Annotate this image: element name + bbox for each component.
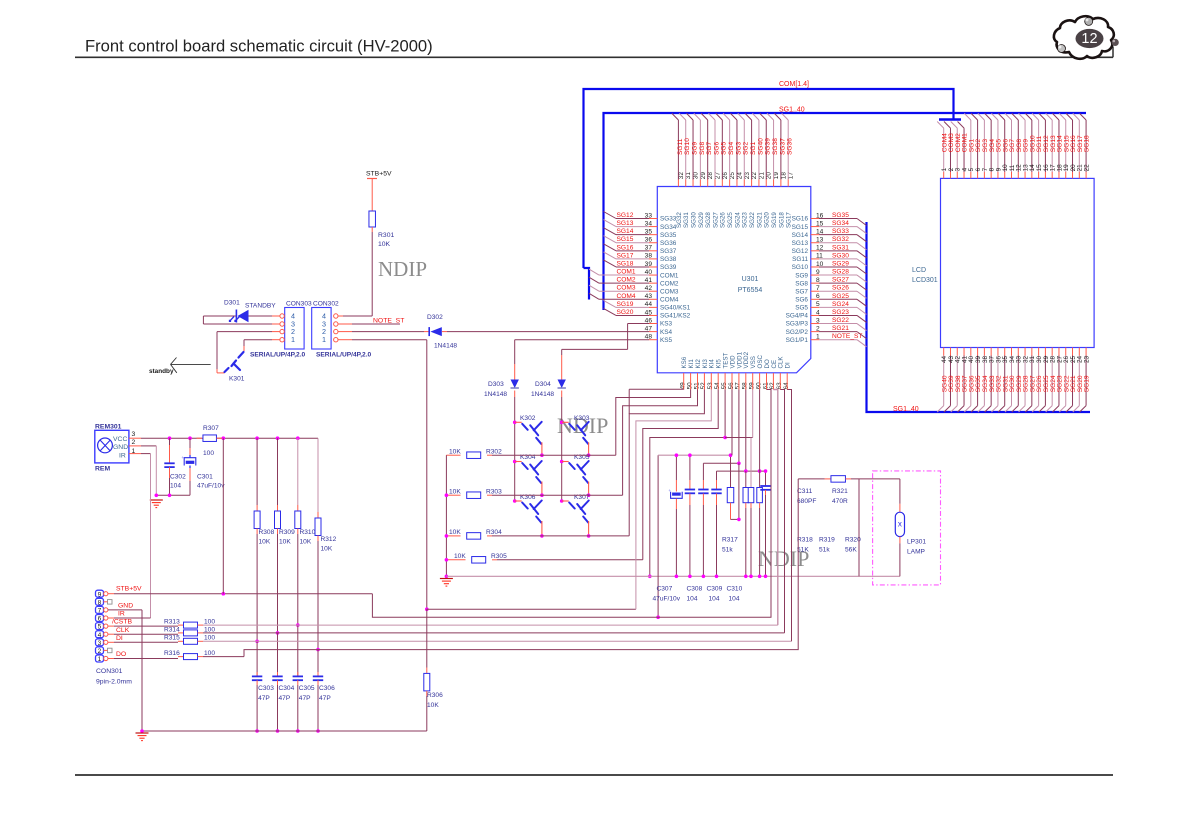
wire STB+5V drop and row 617 <box>372 390 771 618</box>
ground symbol key matrix <box>440 578 453 580</box>
svg-text:SG21: SG21 <box>832 325 849 332</box>
svg-text:REM301: REM301 <box>95 424 122 431</box>
svg-text:GND: GND <box>118 603 133 610</box>
svg-text:23: 23 <box>744 172 751 180</box>
svg-text:/CSTB: /CSTB <box>112 619 132 626</box>
svg-text:R318: R318 <box>797 537 813 544</box>
ground bus left of key matrix <box>445 455 447 576</box>
ground row middle horizontal <box>446 575 900 577</box>
svg-text:SG40/KS1: SG40/KS1 <box>660 305 691 312</box>
wires pull-up columns continue to filter caps <box>256 641 258 676</box>
svg-text:LCD301: LCD301 <box>912 277 938 284</box>
svg-text:1: 1 <box>322 335 326 344</box>
svg-text:KS3: KS3 <box>660 321 673 328</box>
svg-text:C308: C308 <box>687 586 703 593</box>
switch K307 <box>562 500 569 502</box>
wire CLK pin63 riser <box>780 390 784 633</box>
svg-text:COM1: COM1 <box>660 272 679 279</box>
svg-text:SG13: SG13 <box>792 240 809 247</box>
wire CON303 pin4 row to LED <box>272 315 280 317</box>
svg-text:470R: 470R <box>832 498 848 505</box>
svg-text:R310: R310 <box>300 529 316 536</box>
svg-text:51K: 51K <box>797 547 809 554</box>
svg-text:SG6: SG6 <box>713 141 720 155</box>
svg-text:SG25: SG25 <box>727 212 734 228</box>
svg-text:IR: IR <box>118 611 125 618</box>
svg-text:47P: 47P <box>258 695 270 702</box>
svg-text:C303: C303 <box>258 685 274 692</box>
svg-text:10K: 10K <box>279 539 291 546</box>
svg-text:10K: 10K <box>449 448 461 455</box>
LCD301 bottom pins stubs diagonals numbers and red labels <box>943 348 945 356</box>
svg-text:SG1..40: SG1..40 <box>779 107 805 114</box>
wire KI5 from U301 pin54 to R305 row <box>643 390 718 560</box>
svg-text:3: 3 <box>132 431 136 438</box>
switch K302 <box>515 421 522 423</box>
svg-text:SG31: SG31 <box>832 244 849 251</box>
svg-text:SG28: SG28 <box>705 212 712 228</box>
svg-text:SG16: SG16 <box>617 244 634 251</box>
svg-text:COM2: COM2 <box>617 277 636 284</box>
svg-text:8: 8 <box>98 599 102 606</box>
svg-text:SG4: SG4 <box>728 141 735 155</box>
svg-text:1N4148: 1N4148 <box>531 391 554 398</box>
rail TEST extends to VSS pin59 <box>725 437 753 439</box>
svg-text:47P: 47P <box>299 695 311 702</box>
page number cloud badge 12 <box>1054 16 1119 59</box>
bus SG right vertical to bottom <box>867 222 1091 412</box>
svg-text:SG21: SG21 <box>756 212 763 228</box>
svg-text:C309: C309 <box>707 586 723 593</box>
svg-text:SG20: SG20 <box>617 309 634 316</box>
svg-text:C311: C311 <box>797 488 813 495</box>
svg-text:6: 6 <box>98 616 102 623</box>
svg-text:25: 25 <box>729 172 736 180</box>
svg-text:56K: 56K <box>845 547 857 554</box>
svg-text:SG41/KS2: SG41/KS2 <box>660 313 691 320</box>
U301 right pin stubs with diagonals to SG bus <box>811 339 819 341</box>
header rule line <box>75 56 1113 58</box>
svg-text:SG3: SG3 <box>735 141 742 155</box>
svg-text:SG10: SG10 <box>792 264 809 271</box>
svg-text:R307: R307 <box>203 425 219 432</box>
svg-text:SG32: SG32 <box>676 212 683 228</box>
wire DO row jog and run to lamp riser <box>244 479 798 657</box>
wire CON303 pin1 to K301 top <box>272 339 280 341</box>
junction pull-ups to key rows <box>255 640 259 644</box>
svg-text:SG36: SG36 <box>787 138 794 155</box>
svg-text:STB+5V: STB+5V <box>366 171 392 178</box>
switch K303 <box>562 421 569 423</box>
resistor R301 <box>369 211 376 227</box>
wire KI2 from U301 pin51 to R303 row <box>623 390 698 496</box>
svg-text:SG32: SG32 <box>832 236 849 243</box>
svg-text:DO: DO <box>116 651 126 658</box>
svg-text:10K: 10K <box>300 539 312 546</box>
svg-text:32: 32 <box>678 172 685 180</box>
wire CON302 pin3 NOTE_ST stub <box>338 323 352 325</box>
svg-text:SG11: SG11 <box>677 138 684 155</box>
svg-text:K303: K303 <box>574 415 590 422</box>
svg-text:10K: 10K <box>378 241 391 248</box>
svg-text:SG35: SG35 <box>660 232 677 239</box>
wire U301 KS3 row down to D304 <box>649 323 657 325</box>
svg-text:SG26: SG26 <box>832 285 849 292</box>
svg-text:CON301: CON301 <box>96 668 123 675</box>
U301 top pin stubs and diagonals to SG bus <box>677 180 679 187</box>
svg-text:LCD: LCD <box>912 267 926 274</box>
svg-text:SERIAL/UP/4P,2.0: SERIAL/UP/4P,2.0 <box>316 352 372 359</box>
svg-text:1: 1 <box>98 656 102 663</box>
bus SG1..40 top horizontal <box>604 113 1087 310</box>
svg-text:23: 23 <box>1083 355 1090 363</box>
svg-text:KS4: KS4 <box>660 329 673 336</box>
svg-text:SG23: SG23 <box>742 212 749 228</box>
svg-text:SG27: SG27 <box>832 277 849 284</box>
svg-text:NDIP: NDIP <box>378 257 427 281</box>
wire VDD pin56 down to rail <box>731 390 733 456</box>
svg-text:SG5: SG5 <box>795 305 808 312</box>
svg-text:SG2: SG2 <box>743 141 750 155</box>
svg-text:SG18: SG18 <box>617 260 634 267</box>
U301 left pin stubs SG12-SG18 with diagonals <box>649 218 657 220</box>
svg-text:R321: R321 <box>832 488 848 495</box>
svg-text:COM1: COM1 <box>617 269 636 276</box>
svg-text:SG6: SG6 <box>795 297 808 304</box>
svg-text:D302: D302 <box>427 314 443 321</box>
svg-text:7: 7 <box>98 608 102 615</box>
svg-text:26: 26 <box>722 172 729 180</box>
svg-text:SG18: SG18 <box>1084 135 1091 152</box>
svg-text:GND: GND <box>113 444 128 451</box>
svg-text:10K: 10K <box>259 539 271 546</box>
CON302 pin circles and numbers <box>334 314 338 318</box>
svg-text:SERIAL/UP/4P,2.0: SERIAL/UP/4P,2.0 <box>250 352 306 359</box>
svg-text:SG26: SG26 <box>720 212 727 228</box>
svg-text:10K: 10K <box>321 546 333 553</box>
dashed enclosure for LP301 <box>873 471 941 585</box>
svg-text:D303: D303 <box>488 381 504 388</box>
svg-text:standby: standby <box>149 368 174 375</box>
svg-text:64: 64 <box>783 382 790 390</box>
svg-text:SG22: SG22 <box>832 317 849 324</box>
svg-text:51k: 51k <box>819 547 830 554</box>
svg-text:COM3: COM3 <box>617 285 636 292</box>
svg-text:D304: D304 <box>535 381 551 388</box>
wire CON303 pin3 row loop bottom <box>272 323 280 325</box>
wire U301 KS5 row down through D303 <box>649 339 657 341</box>
svg-text:SG3/P3: SG3/P3 <box>786 321 809 328</box>
svg-text:SG24: SG24 <box>734 212 741 228</box>
svg-text:27: 27 <box>715 172 722 180</box>
wire lamp branch vertical <box>858 479 860 576</box>
svg-text:18: 18 <box>780 172 787 180</box>
svg-text:SG14: SG14 <box>617 228 634 235</box>
svg-text:DI: DI <box>116 635 123 642</box>
svg-text:COM4: COM4 <box>617 293 636 300</box>
junctions D303 column to switch tops <box>513 421 517 425</box>
svg-text:1N4148: 1N4148 <box>434 343 457 350</box>
svg-text:K301: K301 <box>229 376 245 383</box>
svg-text:SG15: SG15 <box>792 224 809 231</box>
svg-text:SG30: SG30 <box>690 212 697 228</box>
svg-text:COM4: COM4 <box>660 297 679 304</box>
svg-text:C302: C302 <box>170 474 186 481</box>
svg-text:SG35: SG35 <box>832 212 849 219</box>
REM301 pin leads <box>129 437 141 439</box>
svg-text:SG7: SG7 <box>706 141 713 155</box>
svg-text:R313: R313 <box>164 618 180 625</box>
wire R301 bottom to CON302 pin4 <box>371 227 373 232</box>
svg-text:Front control board schematic: Front control board schematic circuit (H… <box>85 37 433 56</box>
svg-text:51k: 51k <box>722 547 733 554</box>
svg-text:SG28: SG28 <box>832 269 849 276</box>
svg-text:SG13: SG13 <box>617 220 634 227</box>
svg-text:100: 100 <box>204 650 215 657</box>
wire CON302 pin2 row to U301 KS4 <box>338 331 352 333</box>
svg-text:SG8: SG8 <box>795 280 808 287</box>
svg-text:SG39: SG39 <box>660 264 677 271</box>
svg-text:100: 100 <box>204 635 215 642</box>
svg-text:1N4148: 1N4148 <box>484 391 507 398</box>
svg-text:COM2: COM2 <box>660 280 679 287</box>
svg-text:C306: C306 <box>319 685 335 692</box>
bottom border line <box>75 774 1113 776</box>
svg-text:SG37: SG37 <box>779 138 786 155</box>
svg-text:104: 104 <box>709 596 720 603</box>
svg-text:47P: 47P <box>319 695 331 702</box>
svg-text:21: 21 <box>758 172 765 180</box>
U301 left SG19 SG20 pin stubs <box>649 306 657 308</box>
svg-text:104: 104 <box>170 483 181 490</box>
svg-text:SG20: SG20 <box>764 212 771 228</box>
svg-text:9pin-2.0mm: 9pin-2.0mm <box>96 679 132 686</box>
connector CON302 body <box>312 308 331 350</box>
svg-text:28: 28 <box>707 172 714 180</box>
bus COM junction bar at LCD <box>939 118 961 121</box>
svg-text:LP301: LP301 <box>907 539 926 546</box>
wire D301 loop left vertical <box>202 316 204 324</box>
svg-text:SG12: SG12 <box>792 248 809 255</box>
svg-text:STB+5V: STB+5V <box>116 586 142 593</box>
svg-text:KS5: KS5 <box>660 337 673 344</box>
svg-text:R305: R305 <box>491 553 507 560</box>
wire REM IR down to CON301 IR row <box>141 453 151 455</box>
wire GND pin7 to bottom ground bus <box>108 609 142 611</box>
svg-text:NOTE_ST: NOTE_ST <box>373 318 404 325</box>
connector CON303 body <box>285 308 304 350</box>
wire TEST pin55 to ground row <box>650 390 725 577</box>
svg-text:REM: REM <box>95 466 110 473</box>
bus COM left vertical jog <box>584 268 590 300</box>
wire REM GND to ground <box>141 445 156 447</box>
svg-text:R302: R302 <box>486 448 502 455</box>
svg-text:10K: 10K <box>449 488 461 495</box>
svg-text:K302: K302 <box>520 415 536 422</box>
svg-text:LAMP: LAMP <box>907 549 926 556</box>
svg-text:10K: 10K <box>454 553 466 560</box>
wire CON303 pin2 to K301 bottom <box>272 331 280 333</box>
svg-text:SG12: SG12 <box>617 212 634 219</box>
svg-text:10K: 10K <box>427 702 439 709</box>
svg-text:SG16: SG16 <box>792 216 809 223</box>
standby annotation arrow <box>171 358 211 373</box>
switch K306 <box>515 500 522 502</box>
junction CON302 pin1 net and R306 row <box>425 607 429 611</box>
svg-text:20: 20 <box>766 172 773 180</box>
svg-text:R312: R312 <box>321 536 337 543</box>
svg-text:SG2/P2: SG2/P2 <box>786 329 809 336</box>
svg-text:30: 30 <box>693 172 700 180</box>
svg-text:SG31: SG31 <box>683 212 690 228</box>
wire row 609 to pin53 riser <box>427 608 636 610</box>
U301 bottom pin red lead stubs <box>683 373 685 390</box>
svg-text:12: 12 <box>1081 31 1097 47</box>
wire KI1 from U301 pin50 to R302 row <box>616 390 691 456</box>
svg-text:CON303: CON303 <box>286 301 312 308</box>
wire VSS pin59 down to rail <box>752 390 754 438</box>
svg-text:SG8: SG8 <box>699 141 706 155</box>
svg-text:R319: R319 <box>819 537 835 544</box>
LCD panel LCD301 body <box>941 178 1095 347</box>
svg-text:SG19: SG19 <box>771 212 778 228</box>
junctions D304 column to switch tops <box>560 421 564 425</box>
wire IR pin6 lead <box>108 617 114 619</box>
wire R317 bottom stub to VDD1 pin57 <box>731 518 739 520</box>
wire KS6 from U301 pin49 <box>629 388 684 390</box>
svg-text:SG24: SG24 <box>832 301 849 308</box>
svg-text:SG30: SG30 <box>832 252 849 259</box>
svg-text:SG36: SG36 <box>660 240 677 247</box>
svg-text:2: 2 <box>132 439 136 446</box>
wire CE pin62 riser <box>773 390 777 626</box>
svg-text:47uF/10v: 47uF/10v <box>653 596 681 603</box>
svg-text:C307: C307 <box>657 586 673 593</box>
svg-text:SG29: SG29 <box>698 212 705 228</box>
svg-text:SG33: SG33 <box>660 216 677 223</box>
svg-text:104: 104 <box>687 596 698 603</box>
svg-text:SG19: SG19 <box>1084 375 1091 392</box>
svg-text:VCC: VCC <box>113 436 127 443</box>
svg-text:SG19: SG19 <box>617 301 634 308</box>
svg-text:NOTE_ST: NOTE_ST <box>832 333 862 340</box>
svg-text:SG17: SG17 <box>786 212 793 228</box>
switch K305 <box>562 461 569 463</box>
svg-text:19: 19 <box>773 172 780 180</box>
svg-text:SG15: SG15 <box>617 236 634 243</box>
svg-text:COM[1.4]: COM[1.4] <box>779 81 809 88</box>
ground symbol REM <box>150 499 163 501</box>
svg-text:SG1..40: SG1..40 <box>893 406 919 413</box>
svg-text:SG9: SG9 <box>691 141 698 155</box>
svg-text:R306: R306 <box>427 692 443 699</box>
svg-text:9: 9 <box>98 591 102 598</box>
wire REM VCC row <box>141 437 318 439</box>
svg-text:R315: R315 <box>164 635 180 642</box>
svg-text:CLK: CLK <box>116 627 130 634</box>
wire R307 junction down to STB row <box>222 438 224 594</box>
svg-text:C301: C301 <box>197 474 213 481</box>
wire KI3 from U301 pin52 to R304 row <box>629 390 704 536</box>
LCD301 top pins stubs diagonals numbers and red labels <box>943 172 945 178</box>
svg-text:R304: R304 <box>486 529 502 536</box>
wire STB+5V row from CON301 pin9 <box>108 593 114 595</box>
svg-text:SG37: SG37 <box>660 248 677 255</box>
svg-text:R308: R308 <box>259 529 275 536</box>
svg-text:SG34: SG34 <box>832 220 849 227</box>
svg-text:SG40: SG40 <box>757 138 764 155</box>
svg-text:R309: R309 <box>279 529 295 536</box>
wire R301 top lead <box>371 179 373 212</box>
svg-text:2: 2 <box>98 648 102 655</box>
svg-text:10K: 10K <box>449 529 461 536</box>
svg-text:104: 104 <box>729 596 740 603</box>
svg-text:SG5: SG5 <box>721 141 728 155</box>
svg-text:24: 24 <box>736 172 743 180</box>
svg-text:22: 22 <box>1083 164 1090 172</box>
svg-text:x: x <box>898 520 902 529</box>
svg-text:29: 29 <box>700 172 707 180</box>
svg-text:SG14: SG14 <box>792 232 809 239</box>
svg-text:SG9: SG9 <box>795 272 808 279</box>
wire DI pin64 riser <box>787 390 791 642</box>
svg-text:22: 22 <box>751 172 758 180</box>
wire KI4 from U301 pin53 down to node row 609 <box>636 390 711 610</box>
svg-text:R314: R314 <box>164 627 180 634</box>
svg-text:C305: C305 <box>299 685 315 692</box>
svg-text:SG38: SG38 <box>660 256 677 263</box>
svg-text:U301: U301 <box>742 276 759 283</box>
svg-text:COM3: COM3 <box>660 288 679 295</box>
switch K304 <box>515 461 522 463</box>
svg-text:680PF: 680PF <box>797 498 816 505</box>
svg-text:SG33: SG33 <box>832 228 849 235</box>
wire OSC pin60 down to rail 471 <box>759 390 761 472</box>
svg-text:SG25: SG25 <box>832 293 849 300</box>
CON303 pin circles and numbers <box>280 314 284 318</box>
svg-text:SG11: SG11 <box>792 256 808 263</box>
svg-text:SG29: SG29 <box>832 260 849 267</box>
svg-text:SG34: SG34 <box>660 224 677 231</box>
svg-text:SG23: SG23 <box>832 309 849 316</box>
svg-text:SG10: SG10 <box>684 138 691 155</box>
svg-text:100: 100 <box>203 450 214 457</box>
svg-text:D301: D301 <box>224 300 240 307</box>
svg-text:SG7: SG7 <box>795 288 808 295</box>
svg-text:1: 1 <box>291 335 295 344</box>
svg-text:3: 3 <box>98 640 102 647</box>
svg-text:R303: R303 <box>486 488 502 495</box>
svg-text:5: 5 <box>98 624 102 631</box>
rail VDD row 455 to caps <box>657 455 659 617</box>
svg-text:SG17: SG17 <box>617 252 634 259</box>
ground symbol bottom left <box>136 732 149 734</box>
svg-text:SG4/P4: SG4/P4 <box>786 313 809 320</box>
svg-text:SG27: SG27 <box>712 212 719 228</box>
svg-text:C310: C310 <box>727 586 743 593</box>
svg-text:STANDBY: STANDBY <box>245 303 276 310</box>
svg-text:+: + <box>181 455 184 460</box>
svg-text:4: 4 <box>98 632 102 639</box>
wire CON302 pin1 down to STB node row <box>338 339 352 341</box>
svg-text:SG1/P1: SG1/P1 <box>786 337 809 344</box>
svg-text:SG39: SG39 <box>765 138 772 155</box>
svg-text:SG22: SG22 <box>749 212 756 228</box>
svg-text:100: 100 <box>204 618 215 625</box>
ground bus bottom left <box>142 730 427 732</box>
connector CON301 body pins <box>96 590 104 597</box>
U301 left COM1-4 pin stubs with diagonals <box>649 274 657 276</box>
